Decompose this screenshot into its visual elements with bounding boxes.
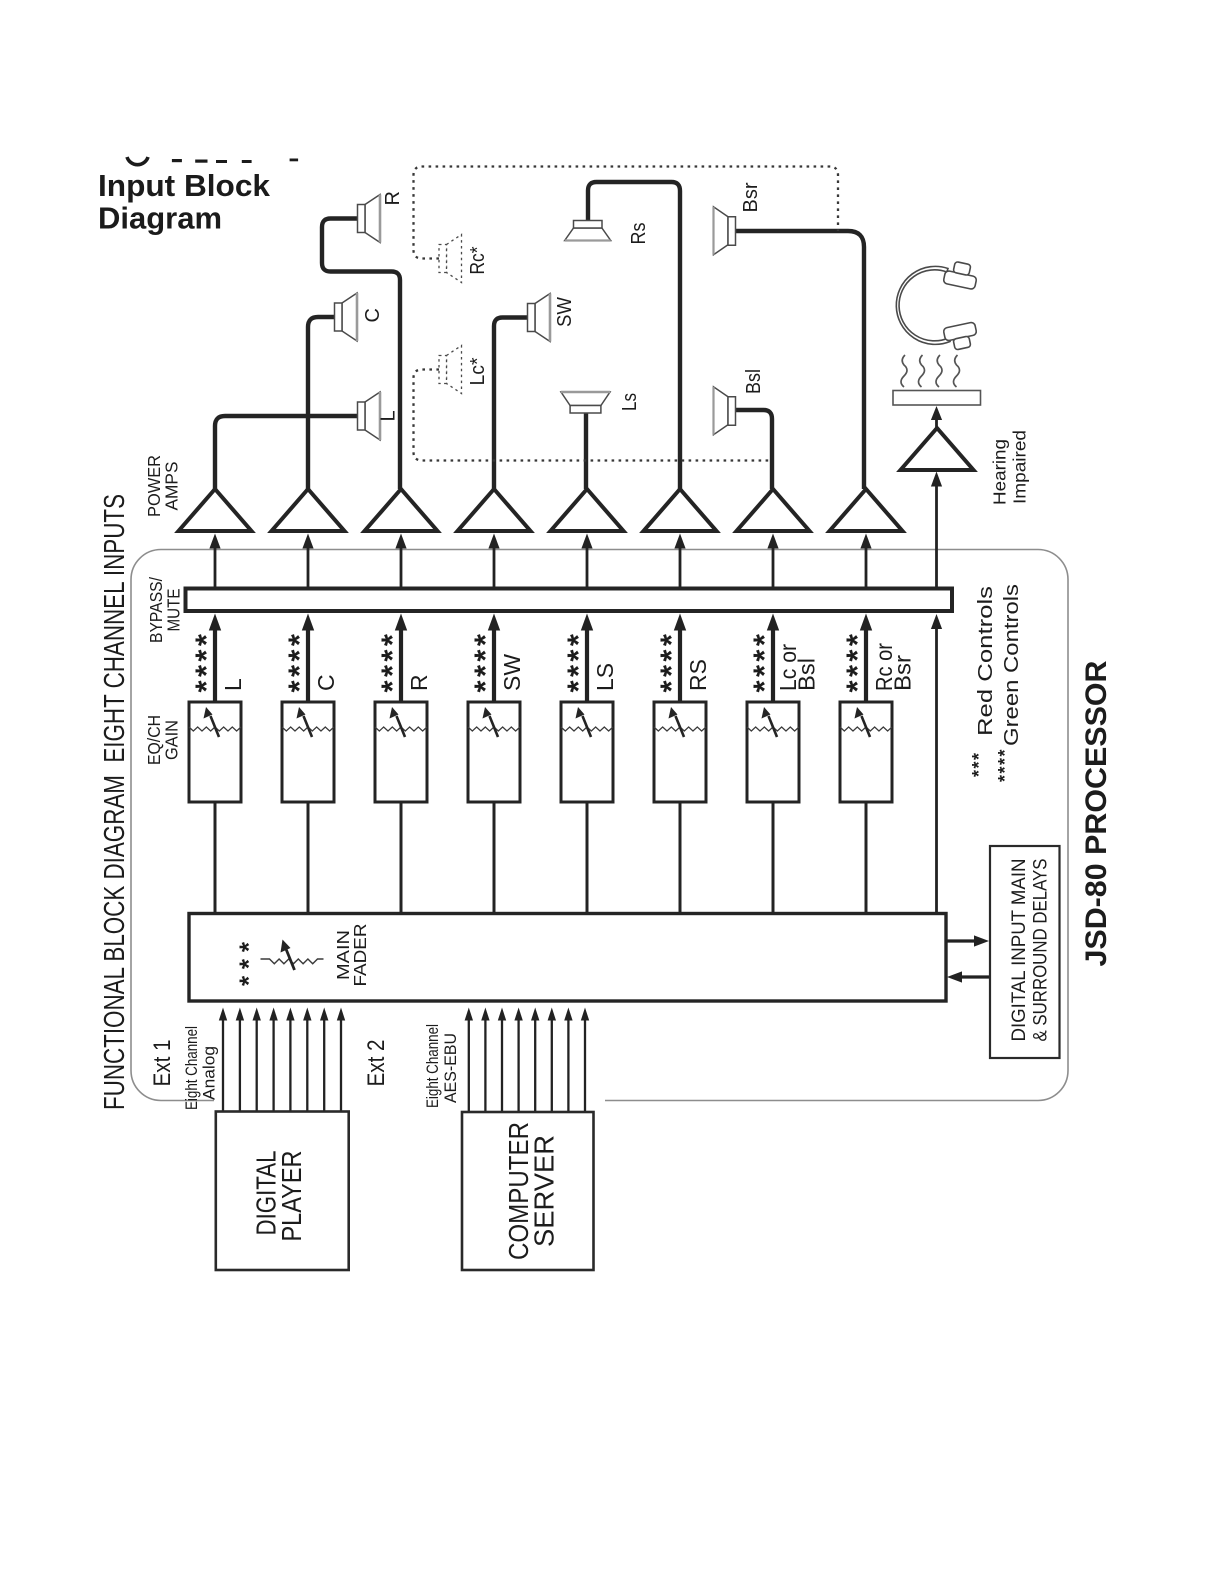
svg-text:SERVER: SERVER: [529, 1135, 560, 1247]
IR radiator panel: [893, 391, 981, 406]
arrow bypass bar to amp 2: [307, 547, 310, 589]
eight channel AES-EBU input arrows (Ext 2): [468, 1020, 470, 1112]
svg-text:R: R: [382, 191, 404, 205]
dashed wire optional speaker Rc* to Bsr/amp8 wire: [414, 167, 839, 259]
svg-text:SW: SW: [499, 654, 525, 691]
wire EQ box 3 to main fader: [400, 802, 403, 914]
arrow bypass bar to amp 4: [493, 547, 496, 589]
wire amp5 to speaker Ls: [584, 412, 588, 489]
arrow main fader to bypass bar (hearing channel): [935, 627, 938, 912]
gain potentiometer 2: [282, 727, 334, 731]
wire amp3 to speaker R (jogged): [322, 219, 400, 490]
svg-text:Diagram: Diagram: [98, 201, 222, 236]
dashed wire optional speaker Lc* to Bsl/amp7 wire: [414, 370, 773, 461]
svg-text:L: L: [378, 410, 400, 421]
wire amp4 to speaker SW: [494, 318, 528, 490]
box COMPUTER SERVER: [462, 1112, 594, 1270]
arrow delays box to main fader: [960, 975, 990, 978]
gain potentiometer 4: [468, 727, 520, 731]
svg-text:FADER: FADER: [350, 924, 370, 987]
EQ/CH gain box 2: [282, 702, 334, 802]
gain potentiometer 6: [654, 727, 706, 731]
svg-text:Eight Channel: Eight Channel: [183, 1026, 201, 1110]
svg-text:****: ****: [189, 631, 224, 693]
optional speaker Lc* (dotted): [439, 346, 462, 394]
arrow EQ box 5 to bypass bar: [585, 629, 589, 703]
wire EQ box 4 to main fader: [493, 802, 496, 914]
wire EQ box 2 to main fader: [307, 802, 310, 914]
svg-text:Rc*: Rc*: [467, 246, 489, 274]
svg-text:Rs: Rs: [628, 223, 650, 245]
svg-text:****: ****: [654, 631, 689, 693]
arrow bypass bar to amp 3: [400, 547, 403, 589]
power amp 3: [365, 489, 438, 531]
wire amp6 to speaker Rs: [588, 182, 680, 489]
svg-text:Lc*: Lc*: [467, 357, 489, 385]
svg-text:***: ***: [969, 751, 989, 777]
svg-text:SW: SW: [554, 297, 576, 327]
svg-text:R: R: [406, 674, 432, 691]
svg-text:****: ****: [282, 631, 317, 693]
power amp 6: [644, 489, 717, 531]
svg-text:Hearing: Hearing: [990, 439, 1010, 505]
power amp 1: [179, 489, 252, 531]
svg-text:****: ****: [468, 631, 503, 693]
power amp 4: [458, 489, 531, 531]
svg-text:***: ***: [234, 935, 264, 986]
gain potentiometer 5: [561, 727, 613, 731]
arrow bypass bar to amp 6: [679, 547, 682, 589]
arrow EQ box 6 to bypass bar: [678, 629, 682, 703]
wire amp8 to speaker Bsr: [736, 231, 865, 489]
power amp 2: [272, 489, 345, 531]
power amp 5: [551, 489, 624, 531]
svg-text:Bsl: Bsl: [794, 658, 820, 691]
arrow EQ box 4 to bypass bar: [492, 629, 496, 703]
svg-text:Bsl: Bsl: [743, 369, 765, 394]
JSD-80 processor enclosure boundary: [131, 550, 1068, 1101]
arrow main fader to delays box: [946, 939, 976, 942]
arrow bypass bar to amp 7: [772, 547, 775, 589]
arrow bypass bar to amp 1: [214, 547, 217, 589]
svg-text:****: ****: [840, 631, 875, 693]
optional speaker Rc* (dotted): [439, 235, 462, 283]
wire EQ box 5 to main fader: [586, 802, 589, 914]
svg-text:PLAYER: PLAYER: [276, 1151, 307, 1242]
svg-text:FUNCTIONAL BLOCK DIAGRAM EIGH: FUNCTIONAL BLOCK DIAGRAM EIGHT CHANNEL I…: [99, 494, 131, 1110]
wire amp7 to speaker Bsl: [736, 410, 773, 489]
EQ/CH gain box 1: [189, 702, 241, 802]
wire amp2 to speaker C: [308, 317, 335, 489]
svg-text:****: ****: [561, 631, 596, 693]
bypass/mute bar: [186, 589, 953, 612]
remnant marks of cropped text line: [127, 157, 298, 165]
arrow bypass bar to hearing amp: [935, 485, 938, 589]
svg-text:Input Block: Input Block: [98, 168, 271, 203]
gain potentiometer 8: [840, 727, 892, 731]
EQ/CH gain box 8: [840, 702, 892, 802]
svg-text:Eight Channel: Eight Channel: [424, 1024, 442, 1108]
svg-text:DIGITAL INPUT MAIN: DIGITAL INPUT MAIN: [1008, 859, 1030, 1042]
wire amp1 to speaker L: [215, 416, 358, 489]
arrow EQ box 3 to bypass bar: [399, 629, 403, 703]
arrow EQ box 7 to bypass bar: [771, 629, 775, 703]
wire EQ box 1 to main fader: [214, 802, 217, 914]
svg-text:LS: LS: [592, 663, 618, 691]
gain potentiometer 1: [189, 727, 241, 731]
svg-text:Bsr: Bsr: [890, 655, 916, 691]
svg-text:Impaired: Impaired: [1010, 430, 1030, 504]
svg-text:****: ****: [375, 631, 410, 693]
arrow hearing amp to radiator: [935, 418, 938, 428]
box DIGITAL INPUT MAIN & SURROUND DELAYS: [990, 846, 1060, 1058]
speaker Ls: [561, 392, 610, 413]
svg-text:****: ****: [995, 748, 1015, 782]
svg-text:Analog: Analog: [201, 1046, 219, 1100]
speaker Rs: [565, 221, 611, 241]
gain potentiometer 7: [747, 727, 799, 731]
EQ/CH gain box 3: [375, 702, 427, 802]
svg-text:Ls: Ls: [619, 393, 641, 411]
EQ/CH gain box 5: [561, 702, 613, 802]
speaker R: [358, 195, 381, 243]
wire EQ box 6 to main fader: [679, 802, 682, 914]
EQ/CH gain box 6: [654, 702, 706, 802]
EQ/CH gain box 4: [468, 702, 520, 802]
arrow EQ box 2 to bypass bar: [306, 629, 310, 703]
gain potentiometer 3: [375, 727, 427, 731]
box DIGITAL PLAYER: [216, 1112, 349, 1271]
svg-text:Green Controls: Green Controls: [1001, 584, 1023, 746]
wire EQ box 8 to main fader: [865, 802, 868, 914]
IR waves: [901, 355, 907, 387]
eight channel analog input arrows (Ext 1): [222, 1020, 224, 1112]
arrow EQ box 1 to bypass bar: [213, 629, 217, 703]
speaker C: [335, 293, 358, 341]
svg-text:Bsr: Bsr: [740, 182, 762, 212]
svg-text:GAIN: GAIN: [162, 720, 182, 760]
svg-text:Ext 2: Ext 2: [363, 1040, 390, 1087]
svg-text:Red Controls: Red Controls: [975, 586, 997, 736]
EQ/CH gain box 7: [747, 702, 799, 802]
power amp 7: [737, 489, 810, 531]
svg-text:Ext 1: Ext 1: [149, 1040, 176, 1087]
speaker SW: [528, 294, 551, 342]
svg-text:& SURROUND DELAYS: & SURROUND DELAYS: [1030, 859, 1052, 1042]
wire EQ box 7 to main fader: [772, 802, 775, 914]
arrow EQ box 8 to bypass bar: [864, 629, 868, 703]
svg-text:MUTE: MUTE: [164, 589, 184, 632]
svg-text:JSD-80 PROCESSOR: JSD-80 PROCESSOR: [1080, 660, 1113, 966]
headphones icon: [896, 261, 977, 350]
speaker Bsr: [714, 207, 736, 255]
arrow bypass bar to amp 8: [865, 547, 868, 589]
svg-text:RS: RS: [685, 659, 711, 691]
svg-text:C: C: [362, 308, 384, 322]
svg-text:AMPS: AMPS: [162, 462, 182, 511]
power amp 9 (hearing impaired): [901, 428, 974, 470]
speaker L: [358, 392, 381, 440]
svg-text:AES-EBU: AES-EBU: [442, 1033, 460, 1103]
main fader box: [189, 914, 946, 1002]
speaker Bsl: [714, 387, 736, 435]
power amp 8: [830, 489, 903, 531]
arrow bypass bar to amp 5: [586, 547, 589, 589]
svg-text:C: C: [313, 674, 339, 691]
svg-text:L: L: [220, 678, 246, 691]
main fader potentiometer: [261, 959, 324, 964]
